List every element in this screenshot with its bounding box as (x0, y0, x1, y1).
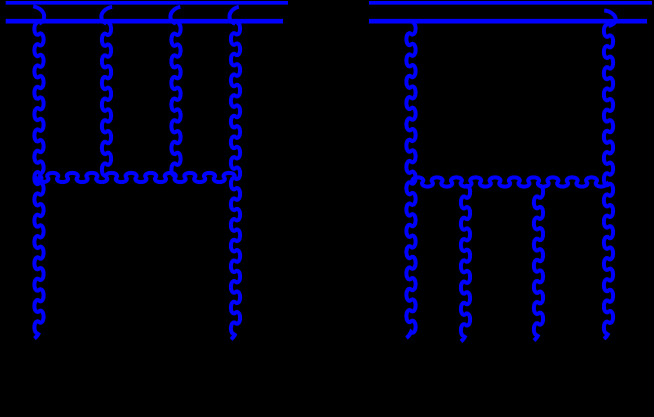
lower external line, diagram (b) (369, 19, 647, 24)
photon P4 top hook, diagram (b) (604, 11, 616, 27)
upper external line, diagram (a) (6, 1, 288, 5)
photon C top hook, diagram (a) (170, 7, 180, 24)
photon C vertical wavy line, diagram (a) (171, 23, 180, 176)
photon P1 vertical wavy line, diagram (b) (406, 22, 415, 338)
lower external line, diagram (a) (6, 19, 283, 24)
junction blob where photon A meets horizontal photon, diagram (a) (37, 174, 43, 183)
photon B top hook, diagram (a) (101, 7, 112, 24)
horizontal photon wavy line, diagram (a) (37, 173, 234, 182)
photon A vertical wavy line, diagram (a) (34, 23, 43, 339)
upper external line, diagram (b) (369, 1, 652, 5)
photon D vertical wavy line, diagram (a) (231, 23, 240, 340)
photon P3 vertical wavy line, diagram (b) (534, 186, 543, 341)
photon A top hook, diagram (a) (33, 6, 44, 23)
photon P4 vertical wavy line, diagram (b) (604, 25, 613, 339)
photon B vertical wavy line, diagram (a) (102, 23, 111, 176)
photon P2 vertical wavy line, diagram (b) (461, 186, 470, 342)
horizontal photon wavy line, diagram (b) (412, 177, 606, 186)
photon D top hook, diagram (a) (229, 7, 238, 24)
